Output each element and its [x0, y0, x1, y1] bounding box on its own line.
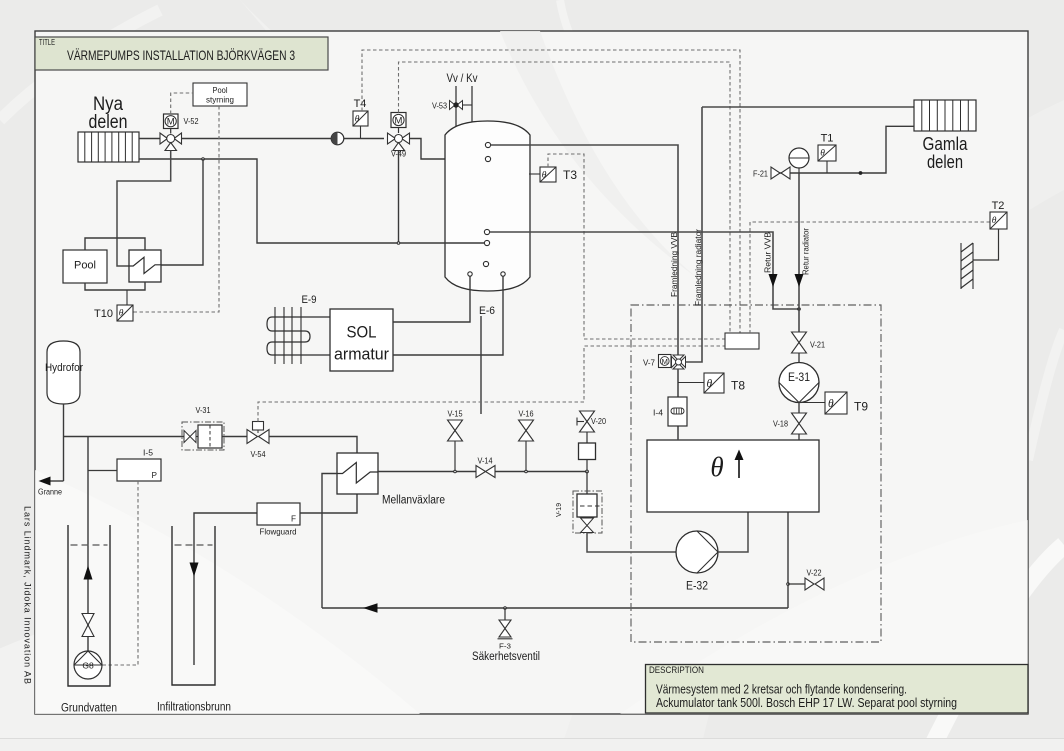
filter unit V-31: [182, 406, 224, 450]
svg-text:armatur: armatur: [334, 345, 389, 364]
control wire V-52 actuator to Pool styrning (dashed): [171, 93, 193, 114]
drain valve V-20 with expansion box: [577, 411, 606, 473]
wire V-19 to pump E-32: [587, 533, 676, 553]
svg-text:delen: delen: [89, 112, 128, 133]
valve V-14: [476, 457, 495, 478]
heat exchanger pool: [129, 250, 161, 282]
svg-text:T8: T8: [731, 379, 745, 393]
svg-text:styrning: styrning: [206, 95, 234, 105]
label Nya delen: [89, 94, 128, 133]
wire supply to Gamla delen radiator: [702, 106, 914, 108]
svg-text:Vv / Kv: Vv / Kv: [447, 71, 478, 85]
control wire T3 to controller (dashed): [548, 154, 725, 339]
svg-text:VÄRMEPUMPS INSTALLATION BJÖRKV: VÄRMEPUMPS INSTALLATION BJÖRKVÄGEN 3: [67, 46, 295, 63]
wire V-7 down to condenser: [677, 369, 679, 440]
well Grundvatten: [61, 525, 117, 715]
svg-text:Granne: Granne: [38, 488, 62, 497]
solar collector coil E-9: [267, 307, 330, 364]
svg-text:Framledning VVB: Framledning VVB: [670, 232, 679, 297]
svg-text:Gamla: Gamla: [923, 134, 969, 154]
svg-text:E-6: E-6: [479, 305, 495, 317]
control wire I-5 to pump G8 (dashed): [102, 481, 138, 665]
control wire Pool styrning to T10 (dashed): [133, 106, 219, 312]
bottom desktop strip: [0, 739, 1064, 751]
pool tank box: [63, 250, 107, 283]
svg-text:θ: θ: [820, 149, 825, 159]
control wire V-54 to controller (dashed): [258, 346, 725, 422]
wire V-54 to Mellanvaxlare top: [269, 437, 357, 454]
sensor T2 (outdoor): [973, 200, 1007, 260]
svg-text:V-16: V-16: [519, 410, 534, 419]
svg-text:V-22: V-22: [807, 569, 822, 578]
sensor T1: [818, 133, 836, 174]
svg-text:Retur radiator: Retur radiator: [802, 228, 811, 275]
strainer I-4: [653, 397, 687, 426]
safety valve F-3: [472, 608, 540, 663]
node junction F-3: [504, 607, 507, 610]
svg-text:V-54: V-54: [251, 450, 266, 459]
pump E-32: [676, 531, 718, 593]
svg-text:F-21: F-21: [753, 170, 768, 179]
wire Gamla delen return: [771, 126, 914, 173]
heat pump controller box: [725, 333, 759, 349]
valve V-7 (motorized mixing valve): [643, 355, 686, 370]
wire + arrow to Granne: [38, 477, 64, 497]
sensor T10: [94, 290, 133, 321]
fill valve F-21: [753, 167, 790, 179]
svg-text:T3: T3: [563, 168, 577, 182]
vent valve V-15: [448, 410, 463, 473]
svg-text:V-18: V-18: [773, 420, 788, 429]
wire Mellanvaxlare left port to return main: [322, 474, 337, 609]
valve V-53: [432, 101, 472, 111]
valve V-54 (actuated): [247, 422, 269, 460]
svg-text:P: P: [152, 471, 158, 480]
wire radiator return to tank lower port: [139, 159, 484, 243]
valve V-18: [773, 403, 807, 441]
instrument I-5 pressure switch: [88, 449, 161, 482]
svg-text:Flowguard: Flowguard: [260, 527, 297, 537]
svg-text:E-32: E-32: [686, 581, 708, 593]
pump (inline circulation pump): [331, 132, 344, 145]
node junction V-49 bottom / return: [397, 242, 400, 245]
arrow flow up in well: [84, 566, 93, 580]
wire pool to HX top link: [85, 238, 145, 250]
svg-text:F: F: [291, 515, 296, 524]
wire V-31 to V-54: [222, 436, 247, 438]
wire SOL bottom to tank bottom port: [393, 276, 503, 355]
drain valve V-22: [788, 569, 824, 591]
wire hydrofor down to cold water main: [63, 404, 65, 481]
node junction V-22: [787, 583, 790, 586]
wire return up to condenser: [787, 512, 789, 608]
heat pump enclosure (dash-dot): [631, 305, 881, 642]
svg-text:V-14: V-14: [478, 457, 493, 466]
wire pool heat exchanger to return junction: [161, 159, 203, 265]
svg-text:SOL: SOL: [347, 323, 377, 342]
svg-text:T10: T10: [94, 308, 113, 320]
vent valve V-16: [519, 410, 534, 473]
arrow Retur radiator down: [795, 274, 804, 287]
wire well riser: [87, 437, 89, 652]
svg-text:Infiltrationsbrunn: Infiltrationsbrunn: [157, 702, 231, 714]
valve V-52 (3-way motor valve): [160, 114, 199, 151]
svg-text:Pool: Pool: [74, 260, 96, 272]
node junction on return: [859, 171, 863, 175]
wire V-7 right port to Framledning radiator riser: [686, 107, 703, 362]
svg-text:T4: T4: [354, 98, 367, 110]
wire flowguard to Mellanvaxlare bottom: [300, 494, 357, 513]
arrow Retur VVB down: [769, 274, 778, 287]
svg-text:θ: θ: [992, 216, 997, 226]
wire bottom return main: [322, 607, 788, 609]
wall section (hatched): [961, 243, 973, 289]
svg-text:Grundvatten: Grundvatten: [61, 703, 117, 715]
svg-text:V-31: V-31: [196, 406, 211, 415]
controller box Pool styrning: [193, 83, 247, 106]
sensor T9: [799, 392, 868, 414]
safety group V-19: [554, 472, 602, 534]
control wire T2 to controller (dashed): [750, 222, 990, 333]
wire Mellanvaxlare right port line: [378, 471, 476, 473]
arrow flow down in well: [190, 563, 199, 577]
wire radiator supply: [139, 138, 160, 140]
wire Vv line: [455, 86, 457, 128]
svg-text:M: M: [662, 357, 668, 366]
svg-text:TITLE: TITLE: [39, 38, 55, 47]
wire SOL top to tank bottom port: [393, 276, 470, 322]
control wire V-49 actuator to controller (dashed): [399, 62, 731, 333]
pump G8 (submersible): [74, 651, 102, 679]
svg-text:V-15: V-15: [448, 410, 463, 419]
wire infiltration drop pipe: [194, 513, 257, 665]
hydrofor vessel: [45, 341, 83, 404]
svg-text:Retur VVB: Retur VVB: [764, 232, 773, 273]
wire pool to HX bottom link: [85, 282, 145, 290]
svg-text:Framledning radiator: Framledning radiator: [694, 229, 703, 306]
valve in well (check valve): [82, 614, 94, 637]
svg-text:V-21: V-21: [810, 341, 825, 350]
svg-text:Mellanväxlare: Mellanväxlare: [382, 495, 445, 507]
wire V-52 to pump to V-49: [182, 138, 385, 140]
svg-text:DESCRIPTION: DESCRIPTION: [649, 665, 704, 675]
valve V-49 (3-way motor valve): [388, 113, 410, 159]
wire V-49 bottom port down to return line: [398, 151, 400, 244]
radiator Gamla delen: [914, 100, 976, 131]
svg-text:θ: θ: [710, 452, 723, 482]
sensor T4: [353, 98, 368, 139]
svg-text:E-31: E-31: [788, 372, 810, 384]
svg-text:Lars Lindmark, Jidoka Innovati: Lars Lindmark, Jidoka Innovation AB: [23, 506, 33, 684]
node junction retur: [797, 307, 801, 311]
sensor T3: [529, 167, 577, 182]
label Gamla delen: [923, 134, 969, 172]
expansion vessel: [789, 148, 809, 173]
wire retur radiator drop: [798, 173, 800, 332]
svg-text:θ: θ: [828, 398, 834, 410]
svg-text:I-4: I-4: [653, 409, 663, 418]
wire Kv line: [471, 86, 473, 125]
node junction radiator return / pool HX: [202, 158, 205, 161]
pump E-31: [779, 353, 819, 403]
wire V-49 to tank top connection: [410, 139, 486, 160]
svg-text:G8: G8: [82, 661, 94, 671]
wire tank mid port to Retur VVB drop: [490, 232, 799, 309]
radiator Nya delen: [78, 132, 139, 162]
accumulator tank: [445, 121, 530, 291]
svg-text:T9: T9: [854, 400, 868, 414]
heat exchanger Mellanvaxlare: [337, 453, 445, 507]
svg-text:V-19: V-19: [554, 503, 563, 517]
sensor T8: [678, 373, 745, 393]
svg-text:T2: T2: [992, 200, 1005, 212]
svg-text:Säkerhetsventil: Säkerhetsventil: [472, 651, 540, 663]
control wire T4 to controller (dashed): [362, 50, 740, 333]
SOL armatur box: [330, 309, 393, 371]
wire V-52 bottom to pool heat exchanger: [117, 151, 171, 267]
svg-text:V-53: V-53: [432, 102, 447, 111]
svg-text:Pool: Pool: [213, 85, 228, 95]
title block: [35, 37, 328, 70]
svg-text:M: M: [167, 117, 175, 128]
svg-text:Hydrofor: Hydrofor: [45, 362, 83, 374]
svg-text:V-7: V-7: [643, 359, 655, 368]
arrow return flow left: [363, 603, 378, 613]
svg-text:E-9: E-9: [302, 294, 317, 306]
wire cold water main line: [64, 436, 185, 438]
svg-text:V-20: V-20: [591, 417, 606, 426]
svg-text:Ackumulator tank 500l. Bosch E: Ackumulator tank 500l. Bosch EHP 17 LW. …: [656, 695, 957, 710]
valve V-21: [792, 332, 826, 353]
wire E-32 to condenser bottom: [718, 512, 748, 552]
wire tank top port to Framledning VVB riser: [491, 145, 678, 355]
tank port nodes: [468, 142, 505, 276]
svg-text:V-52: V-52: [184, 117, 199, 126]
wire E-6 immersion line: [480, 316, 482, 414]
svg-text:θ: θ: [119, 309, 124, 319]
svg-text:delen: delen: [927, 152, 963, 172]
description block: [646, 665, 1029, 714]
svg-text:θ: θ: [542, 171, 547, 181]
svg-text:T1: T1: [821, 133, 834, 145]
heat pump condenser unit: [647, 440, 819, 512]
svg-text:F-3: F-3: [499, 642, 511, 651]
svg-text:I-5: I-5: [143, 449, 153, 458]
svg-text:M: M: [395, 115, 403, 126]
svg-text:θ: θ: [355, 115, 360, 125]
flow guard instrument: [257, 503, 300, 537]
well Infiltrationsbrunn: [157, 526, 231, 714]
svg-text:θ: θ: [707, 378, 713, 390]
